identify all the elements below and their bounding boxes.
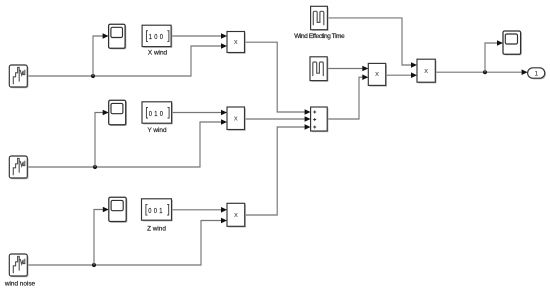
scope Scope1 — [109, 24, 127, 49]
svg-text:0: 0 — [154, 207, 157, 215]
wire J3 up to Scope3 — [94, 210, 103, 266]
product M2 — [227, 107, 246, 131]
arrowhead into M5 in1 — [411, 62, 417, 68]
svg-text:1: 1 — [154, 110, 157, 118]
label Z wind — [147, 225, 166, 232]
arrowhead into Scope4 — [497, 40, 503, 46]
junction J3 on noise3 row — [92, 263, 96, 267]
junction J2 on noise2 row — [93, 165, 97, 169]
pulse generator P1 (Wind Effecting Time) — [311, 6, 329, 31]
svg-text:wind noise: wind noise — [4, 280, 36, 287]
svg-text:1: 1 — [534, 70, 538, 77]
label X wind — [148, 50, 168, 57]
arrowhead into M2 in1 — [221, 110, 227, 116]
constant Z wind, value [0 0 1] — [142, 199, 173, 222]
junction J4 on output wire — [483, 70, 487, 74]
svg-text:0: 0 — [154, 34, 157, 42]
wire noise2 row: N2 output to turn, to product M2 in2 — [27, 122, 221, 167]
product M1 — [227, 32, 246, 54]
svg-text:1: 1 — [149, 34, 152, 42]
arrowhead into M1 in1 — [221, 33, 227, 39]
svg-text:x: x — [234, 113, 238, 122]
wire sum out to product M4 in2 — [327, 77, 362, 119]
constant Y wind, value [0 1 0] — [142, 102, 173, 125]
svg-text:Y wind: Y wind — [147, 127, 167, 134]
arrowhead into M5 in2 — [411, 72, 417, 78]
scope Scope3 — [109, 197, 128, 222]
wire constant Z wind to product M3 in1 — [172, 209, 222, 211]
wire product M1 out down to sum in1 — [245, 42, 306, 112]
arrowhead into sum in3 — [305, 124, 311, 130]
product M3 — [227, 203, 246, 227]
wire J4 up to Scope4 — [485, 43, 497, 72]
arrowhead into Scope1 — [103, 33, 109, 39]
product M5 — [417, 59, 437, 83]
arrowhead into sum in1 — [305, 109, 311, 115]
svg-text:0: 0 — [160, 110, 163, 118]
noise source N3 (band-limited white noise, "wind noise") — [9, 254, 28, 277]
noise source N1 (band-limited white noise) — [9, 65, 28, 88]
arrowhead into M1 in2 — [221, 43, 227, 49]
scope Scope4 — [503, 31, 522, 55]
svg-text:x: x — [424, 66, 428, 75]
scope Scope2 — [109, 100, 127, 126]
outport 1 — [528, 68, 546, 80]
wire constant X wind to product M1 in1 — [171, 35, 221, 37]
sum block S1 (3 inputs) — [311, 107, 329, 132]
label wind noise — [4, 280, 36, 287]
label Y wind — [147, 127, 167, 134]
arrowhead into M3 in1 — [221, 207, 227, 213]
wire noise3 row: N3 output to turn, to product M3 in2 — [27, 221, 221, 266]
noise source N2 (band-limited white noise) — [9, 156, 28, 179]
wire pulse generator P2 to product M4 in1 — [327, 68, 362, 70]
svg-text:1: 1 — [159, 207, 162, 215]
wire constant Y wind to product M2 in1 — [172, 112, 222, 114]
wire J2 up to Scope2 — [95, 113, 103, 168]
svg-text:X wind: X wind — [148, 50, 168, 57]
arrowhead into M4 in2 — [362, 74, 368, 80]
wire noise1 row: N1 output to turn, to product M1 in2 — [27, 46, 221, 76]
svg-text:Wind Effecting Time: Wind Effecting Time — [294, 33, 345, 40]
pulse generator P2 — [310, 57, 328, 82]
label Wind Effecting Time — [294, 33, 345, 40]
wire pulse generator P1 (Wind Effecting Time) to product M5 in1 — [327, 18, 411, 65]
svg-text:0: 0 — [160, 34, 163, 42]
product M4 — [368, 63, 387, 86]
constant X wind, value [1 0 0] — [142, 25, 172, 48]
svg-text:0: 0 — [149, 110, 152, 118]
wire product M3 out up to sum in3 — [245, 127, 305, 215]
arrowhead into Scope2 — [103, 110, 109, 116]
junction J1 on noise1 row — [91, 74, 95, 78]
svg-text:x: x — [234, 37, 238, 46]
arrowhead into outport — [522, 69, 528, 75]
arrowhead into Scope3 — [103, 207, 109, 213]
arrowhead into M2 in2 — [221, 119, 227, 125]
arrowhead into M3 in2 — [221, 218, 227, 224]
svg-text:x: x — [375, 69, 379, 78]
svg-text:x: x — [234, 210, 238, 219]
arrowhead into sum in2 — [305, 116, 311, 122]
wire J1 up to Scope1 — [93, 36, 103, 76]
svg-text:0: 0 — [148, 207, 151, 215]
arrowhead into M4 in1 — [362, 66, 368, 72]
wire product M4 out to product M5 in2 — [386, 74, 412, 76]
wire product M5 out to outport — [435, 71, 522, 73]
wire product M2 out to sum in2 — [245, 118, 306, 120]
svg-text:Z wind: Z wind — [147, 225, 166, 232]
